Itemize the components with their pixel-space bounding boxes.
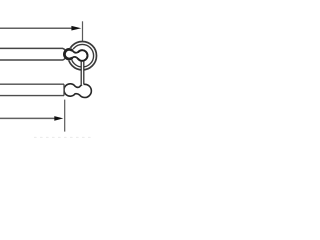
rod 2 bottom edge — [0, 95, 64, 97]
bottom extension line — [64, 100, 66, 132]
rod 2 (lower rod) body — [0, 84, 64, 95]
top dimension line — [0, 27, 74, 29]
bottom dimension line — [0, 117, 57, 119]
rod 2 top edge — [0, 83, 64, 85]
faint dashed remnant line — [34, 136, 94, 138]
dumbbell slot: ball + channel + eye hole — [64, 49, 87, 60]
top extension line — [82, 21, 84, 41]
slot margin through ring (white clearance around rod1 ball) — [63, 48, 76, 61]
eye ring inner rim circle — [71, 44, 94, 67]
stem channel (erases ring bottom arcs and socket top arc) — [81, 58, 84, 85]
ball outline overlay (thicker, scan-dark) — [64, 49, 72, 59]
lower peanut: rod2 end ball and socket ball — [64, 84, 91, 98]
rod 1 (upper rod) with funnel neck into ball end — [0, 48, 74, 60]
eye ring outer circle — [68, 42, 96, 70]
top dimension arrowhead — [71, 26, 81, 31]
stem left line — [80, 61, 82, 86]
stem right line — [83, 61, 85, 85]
bottom dimension arrowhead — [54, 116, 63, 121]
rod 2 end face — [63, 84, 65, 95]
eye hole outline overlay (open toward channel) — [78, 50, 88, 61]
